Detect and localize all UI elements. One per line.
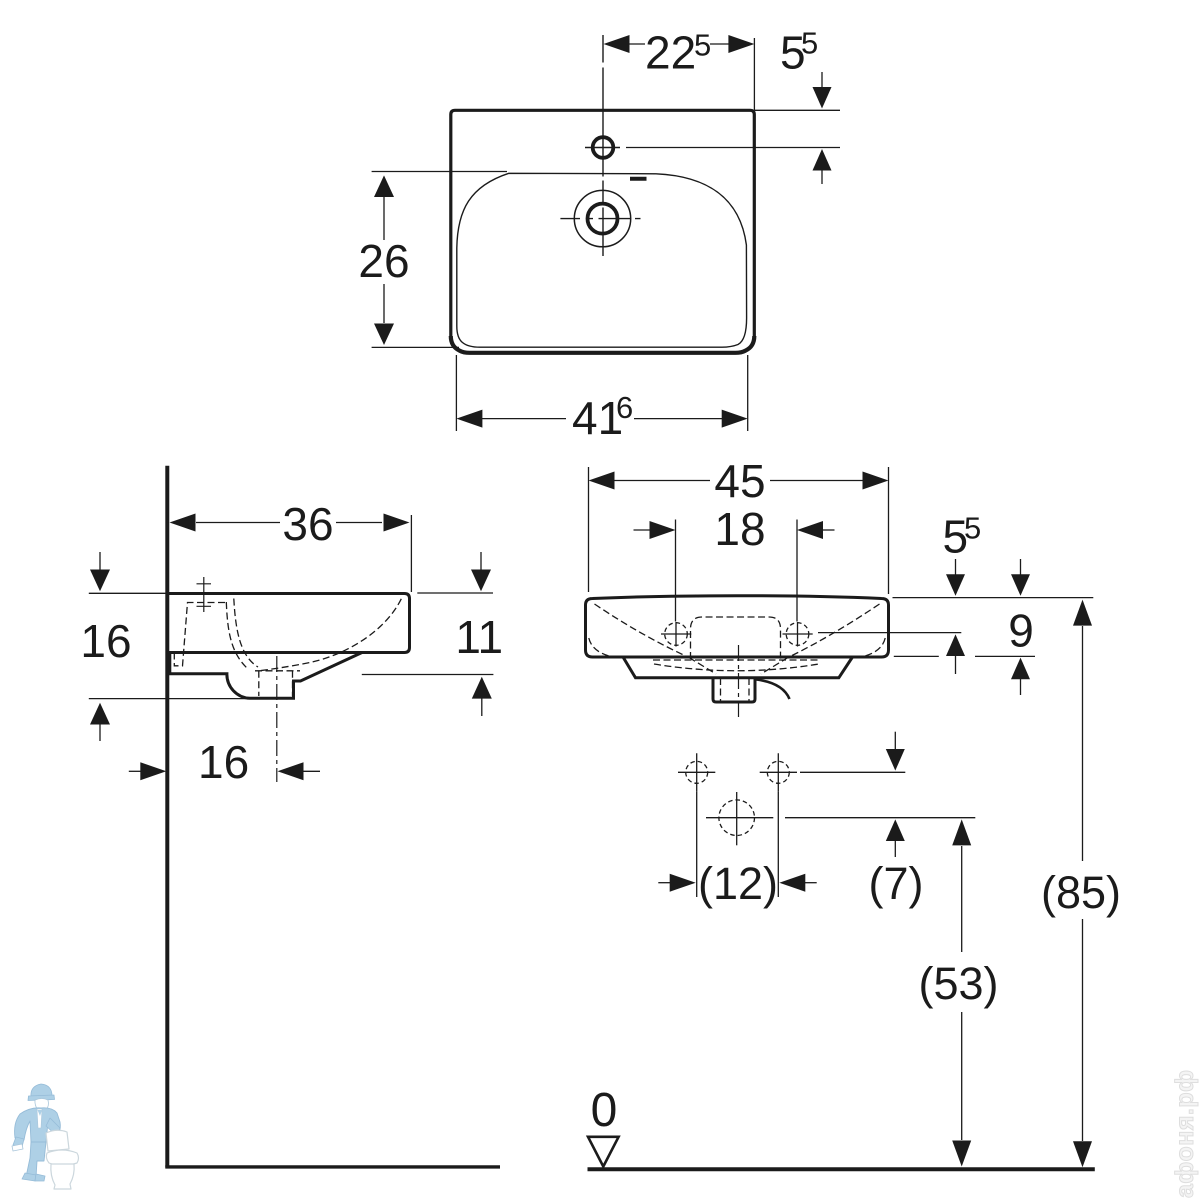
svg-text:(53): (53) — [919, 958, 999, 1009]
right extension lines — [893, 597, 1094, 599]
drain front circle — [719, 800, 755, 836]
hidden recess — [691, 617, 781, 659]
dim 45 — [589, 467, 889, 594]
dim (7) — [800, 771, 905, 773]
drain box — [713, 678, 755, 702]
svg-text:16: 16 — [198, 736, 249, 788]
face — [35, 1099, 49, 1111]
floor segment left — [165, 1165, 500, 1168]
dim 5.5 top — [821, 72, 823, 88]
front centerline — [738, 645, 740, 717]
floor line right — [588, 1167, 1095, 1171]
hidden bowl bottom — [654, 664, 819, 671]
tap hole — [593, 137, 614, 158]
svg-text:11: 11 — [455, 611, 503, 663]
right hand with wrench — [13, 1137, 24, 1147]
tap hole extension line — [626, 147, 840, 149]
drain centerline — [276, 656, 278, 782]
top edge extension line — [754, 109, 840, 111]
hidden rim line — [653, 659, 820, 661]
plumber logo — [12, 1084, 79, 1189]
drain crosshair — [560, 218, 640, 220]
zero marker — [588, 1137, 619, 1167]
drain inner circle — [588, 204, 618, 234]
dim (85) — [1082, 626, 1084, 1141]
dim 41.6 — [456, 355, 747, 431]
overflow dash — [630, 177, 647, 181]
svg-text:36: 36 — [282, 498, 333, 550]
svg-text:16: 16 — [80, 615, 131, 667]
toilet cistern — [46, 1130, 69, 1151]
sink body profile — [167, 594, 409, 653]
left arm on cistern — [46, 1118, 60, 1136]
dim 11 — [417, 592, 493, 594]
svg-text:18: 18 — [714, 503, 765, 555]
dim 5.5 arrows — [955, 559, 957, 575]
jacket — [15, 1108, 61, 1142]
svg-text:22: 22 — [645, 27, 696, 79]
underside — [623, 657, 853, 678]
dim 22.5 — [628, 43, 730, 45]
dim 16 left — [89, 593, 250, 698]
toilet bowl/pedestal — [51, 1164, 74, 1189]
svg-text:6: 6 — [616, 390, 633, 425]
mounting holes — [686, 761, 708, 783]
cap — [31, 1084, 52, 1097]
trousers — [26, 1142, 46, 1177]
svg-text:афоня.рф: афоня.рф — [1171, 1070, 1199, 1199]
hidden drain pipe — [255, 670, 300, 672]
wall line — [165, 466, 169, 1168]
svg-text:5: 5 — [801, 26, 818, 61]
dim (12) — [697, 792, 779, 897]
svg-text:(85): (85) — [1041, 867, 1121, 918]
body — [586, 596, 889, 657]
dim 26 — [372, 172, 507, 348]
centerline — [602, 35, 604, 256]
svg-text:9: 9 — [1008, 604, 1034, 656]
basin outline — [457, 173, 747, 347]
siphon arc — [757, 680, 790, 700]
hidden tap block — [174, 603, 226, 666]
hidden overflow channel — [226, 602, 247, 669]
dim 16 bottom — [129, 770, 142, 772]
shoes — [22, 1173, 36, 1181]
tap holes front — [665, 623, 688, 646]
svg-text:(7): (7) — [869, 858, 924, 909]
svg-text:5: 5 — [964, 511, 981, 546]
svg-text:45: 45 — [714, 455, 765, 507]
dim 9 arrows — [1020, 559, 1022, 575]
dim (53) — [961, 846, 963, 1140]
drain outer circle — [574, 190, 630, 246]
toilet seat — [46, 1150, 78, 1166]
svg-text:26: 26 — [358, 235, 409, 287]
svg-text:0: 0 — [591, 1084, 618, 1137]
underside profile — [170, 653, 362, 699]
svg-text:(12): (12) — [698, 858, 778, 909]
dim 36 — [196, 522, 382, 524]
dim 18 — [676, 520, 798, 622]
svg-text:5: 5 — [694, 28, 711, 63]
outer body sides and top — [451, 110, 755, 336]
tap hole crosshair tick — [585, 147, 620, 149]
hidden bowl V — [595, 604, 690, 658]
tap centerline cross — [203, 577, 205, 612]
hidden bowl curve — [258, 599, 402, 671]
shirt — [37, 1109, 42, 1128]
front rim thick bottom — [451, 336, 755, 353]
